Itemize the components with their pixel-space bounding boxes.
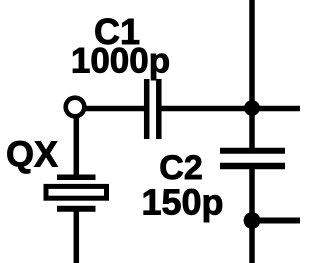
- capacitor C1: [147, 79, 159, 139]
- label C2: [159, 149, 202, 187]
- wire: C1 right plate to right edge: [161, 106, 300, 112]
- svg-text:150p: 150p: [141, 182, 223, 223]
- crystal QX: [46, 177, 107, 209]
- label QX: [6, 134, 58, 175]
- junction dot: rail / C1 wire: [244, 100, 260, 116]
- wire: node down to crystal: [74, 116, 80, 176]
- wire: right vertical rail upper segment: [249, 0, 255, 149]
- capacitor C2: [220, 151, 285, 166]
- label C1: [94, 11, 140, 52]
- wire: lower branch to right edge: [252, 218, 300, 224]
- wire: node to C1 left plate: [84, 106, 145, 112]
- wire: crystal to bottom edge: [74, 210, 80, 263]
- junction dot: rail / lower branch: [244, 212, 261, 229]
- value label 150p: [141, 182, 223, 223]
- svg-text:1000p: 1000p: [71, 42, 170, 81]
- value label 1000p: [71, 42, 170, 81]
- svg-text:QX: QX: [6, 134, 58, 175]
- wire: right vertical rail lower segment: [249, 167, 255, 263]
- node: open terminal circle: [66, 98, 85, 117]
